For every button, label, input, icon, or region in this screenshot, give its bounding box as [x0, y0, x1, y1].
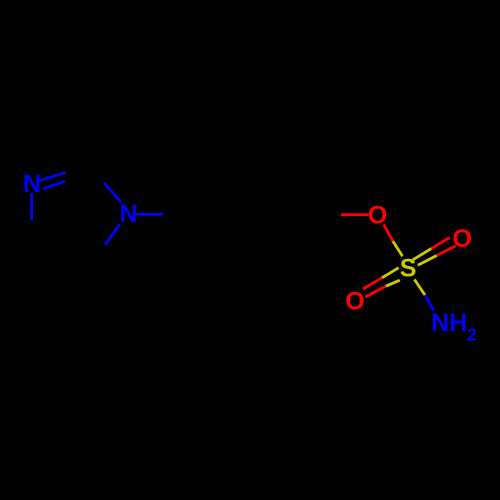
bond N3-C4 (blue half) — [30, 193, 33, 220]
bond S=O(down) upper line yellow half — [382, 268, 399, 278]
svg-text:NH: NH — [431, 309, 467, 337]
svg-text:S: S — [400, 255, 417, 283]
bond S-N blue half — [425, 295, 434, 311]
bond S=O upper line red half — [431, 238, 450, 249]
bond C4'-O (red half) — [341, 213, 368, 216]
bond N1-C1' (blue half) — [136, 213, 163, 216]
svg-text:2: 2 — [467, 325, 477, 345]
bond N3=C2 line 2 (blue half) — [43, 181, 65, 189]
bond S=O lower line red half — [437, 246, 456, 256]
svg-text:O: O — [452, 225, 471, 253]
bond N1-C5 (blue half) — [105, 224, 120, 245]
svg-text:N: N — [119, 200, 137, 228]
bond S=O(down) lower line red half — [365, 286, 385, 297]
bond S=O lower line yellow half — [418, 256, 437, 266]
svg-text:O: O — [368, 201, 387, 229]
svg-text:N: N — [23, 170, 41, 198]
bond S=O upper line yellow half — [413, 249, 432, 260]
bond S=O(down) upper line red half — [363, 278, 382, 289]
bond O-S yellow half — [393, 241, 403, 256]
bond N3=C2 line 1 (blue half) — [40, 173, 66, 181]
bond S-N yellow half — [414, 279, 425, 295]
svg-text:O: O — [345, 287, 364, 315]
bond O-S red half — [384, 224, 393, 241]
bond C2-N1 (blue half) — [104, 183, 121, 202]
bond S=O(down) lower line yellow half — [386, 280, 400, 286]
